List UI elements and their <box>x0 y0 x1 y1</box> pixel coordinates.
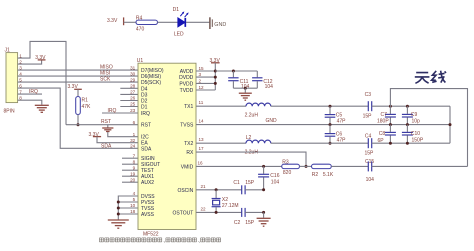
svg-text:17: 17 <box>199 146 205 151</box>
power port 3.3V (J1 pin2) <box>35 55 46 61</box>
capacitor C11 <box>228 71 249 90</box>
svg-text:25: 25 <box>130 102 136 107</box>
LED D1 <box>173 7 189 38</box>
svg-text:15P: 15P <box>363 113 373 119</box>
wire stub D1 <box>120 106 138 108</box>
svg-text:D1: D1 <box>173 7 180 13</box>
ground (below RST line) <box>102 125 113 132</box>
svg-text:SDA: SDA <box>101 143 112 149</box>
svg-text:8PIN: 8PIN <box>4 109 16 115</box>
power port 3.3V (LED row) <box>107 17 124 25</box>
wire VSS bus to ground <box>118 196 138 220</box>
svg-text:27.12M: 27.12M <box>222 203 239 209</box>
svg-text:IRQ: IRQ <box>108 108 117 114</box>
wire C2 to ground rail <box>245 211 264 213</box>
svg-text:2.2uH: 2.2uH <box>245 113 259 119</box>
svg-text:D4: D4 <box>141 86 148 92</box>
svg-text:3: 3 <box>199 72 202 77</box>
wire decoupling bottom rail <box>233 87 257 89</box>
svg-text:47P: 47P <box>337 137 347 143</box>
resistor R4 <box>136 16 158 33</box>
node VMID/C16 <box>262 165 265 168</box>
svg-text:24: 24 <box>130 144 136 149</box>
wire J1 pin8 to ground <box>18 100 42 104</box>
capacitor C7 180P <box>377 105 396 125</box>
wire stub PVSS <box>118 201 138 203</box>
svg-text:15P: 15P <box>245 220 255 226</box>
wire R2 to C15 <box>331 165 368 167</box>
wire R3 to R2 <box>300 165 312 167</box>
capacitor C8 6P <box>378 123 396 145</box>
node antenna center tap <box>449 123 452 126</box>
svg-text:7: 7 <box>133 153 136 158</box>
capacitor C15 104 (series) <box>365 159 374 183</box>
svg-text:R1: R1 <box>82 98 89 104</box>
svg-text:4: 4 <box>133 191 136 196</box>
wire ground rail vertical <box>263 212 265 217</box>
label 天线 (antenna) drawn as strokes <box>415 71 446 84</box>
wire J1 pin6 to SDA line <box>18 88 138 148</box>
svg-text:6: 6 <box>133 120 136 125</box>
svg-text:AVDD: AVDD <box>180 69 194 75</box>
wire antenna outer loop <box>390 89 467 167</box>
svg-text:TVDD: TVDD <box>180 88 194 94</box>
svg-text:23: 23 <box>130 108 136 113</box>
svg-text:32: 32 <box>130 138 136 143</box>
wire stub SIGOUT <box>122 163 138 165</box>
wire stub SIGIN <box>122 157 138 159</box>
svg-text:15P: 15P <box>245 180 255 186</box>
svg-text:5.1K: 5.1K <box>323 172 334 178</box>
svg-text:OSTOUT: OSTOUT <box>173 210 194 216</box>
svg-text:C8: C8 <box>379 131 386 137</box>
wire crystal OSTOUT from U1 <box>196 211 242 213</box>
resistor R3 820 <box>282 160 300 177</box>
svg-text:TX1: TX1 <box>184 104 193 110</box>
svg-text:3.3V: 3.3V <box>107 18 118 24</box>
wire C3 to antenna node A <box>372 105 450 107</box>
wire J1 pin1 loop to RST <box>18 41 66 124</box>
wire stub J1 pin7 IRQ <box>18 93 42 95</box>
svg-text:AVSS: AVSS <box>141 212 155 218</box>
wire stub TEST <box>122 169 138 171</box>
node R1/RST junction <box>77 123 80 126</box>
wire crystal OSCIN from U1 <box>196 189 242 191</box>
svg-text:12: 12 <box>199 85 205 90</box>
wire stub D3 <box>120 93 138 95</box>
svg-text:X2: X2 <box>222 197 228 203</box>
wire SCK J1 pin5 to U1 <box>18 81 138 83</box>
svg-text:1: 1 <box>133 132 136 137</box>
wire VMID from U1 <box>196 165 282 167</box>
wire antenna coil right side <box>449 106 451 143</box>
svg-text:LED: LED <box>174 32 184 38</box>
wire C1 to ground rail <box>245 189 264 191</box>
wire R1 to RST line <box>77 115 79 125</box>
svg-text:104: 104 <box>366 177 375 183</box>
wire stub PVDD <box>196 82 215 84</box>
svg-text:10p: 10p <box>412 118 421 124</box>
svg-text:47P: 47P <box>337 118 347 124</box>
wire GND rail TVSS <box>196 124 450 126</box>
svg-text:14: 14 <box>199 119 205 124</box>
svg-text:26: 26 <box>130 96 136 101</box>
wire stub AUX1 <box>122 175 138 177</box>
ground (U1 VSS) <box>108 220 129 228</box>
svg-text:C9: C9 <box>411 112 418 118</box>
wire MISI J1 pin4 to U1 <box>18 75 138 77</box>
note text (bottom) drawn as glyph marks <box>99 238 220 243</box>
svg-text:470: 470 <box>136 26 145 32</box>
inductor L1 2.2uH <box>245 103 271 119</box>
svg-text:104: 104 <box>265 84 274 90</box>
svg-text:27: 27 <box>130 90 136 95</box>
svg-text:SDA: SDA <box>141 146 152 152</box>
svg-text:2: 2 <box>199 78 202 83</box>
svg-text:C1: C1 <box>233 180 240 186</box>
power port 3.3V (VDD rail) <box>210 58 221 64</box>
svg-text:11: 11 <box>199 100 204 105</box>
svg-text:13: 13 <box>199 137 205 142</box>
capacitor C4 15P (series) <box>365 133 375 156</box>
ground (C11/C12) <box>239 88 252 100</box>
ground (J1 pin8) <box>35 105 49 112</box>
inductor L2 2.2uH <box>245 135 271 155</box>
wire L2 to C4 <box>271 142 369 144</box>
wire VDD rail to decoupling caps <box>215 70 257 72</box>
wire stub D2 <box>120 100 138 102</box>
svg-text:8: 8 <box>133 159 136 164</box>
wire stub AUX2 <box>122 181 138 183</box>
svg-text:R3: R3 <box>282 160 289 166</box>
wire MISO J1 pin3 to U1 <box>18 69 138 71</box>
wire 3.3V to R1 <box>77 89 79 96</box>
svg-text:MF522: MF522 <box>143 232 159 238</box>
svg-text:10: 10 <box>130 203 136 208</box>
wire VDD vertical rail <box>214 63 216 90</box>
wire J1 pin2 to 3.3V <box>18 60 42 64</box>
capacitor C6 47P <box>325 123 346 145</box>
svg-text:GND: GND <box>214 22 226 28</box>
svg-text:RX: RX <box>186 150 194 156</box>
U1 left pin names <box>141 68 164 218</box>
wire stub DVDD <box>196 76 215 78</box>
capacitor C2 15P (series) <box>234 208 255 226</box>
wire C15 to antenna loop <box>372 165 468 167</box>
node TX1/C5 <box>329 105 332 108</box>
svg-text:9: 9 <box>133 165 136 170</box>
connector J1 <box>4 48 23 115</box>
svg-text:R2: R2 <box>312 172 319 178</box>
svg-text:47K: 47K <box>82 104 92 110</box>
power port 3.3V (EA) <box>89 132 102 138</box>
wire D1 to GND port <box>186 21 210 23</box>
svg-text:15P: 15P <box>365 150 375 156</box>
left pin numbers of U1 <box>130 65 136 214</box>
wire stub AVDD <box>196 70 215 72</box>
svg-text:29: 29 <box>130 77 136 82</box>
svg-text:RST: RST <box>101 119 111 125</box>
capacitor C12 <box>252 71 273 90</box>
svg-text:C10: C10 <box>411 131 420 137</box>
svg-text:6P: 6P <box>378 138 385 144</box>
wire stub TVDD <box>196 89 215 91</box>
svg-text:C3: C3 <box>365 92 372 98</box>
svg-text:D1: D1 <box>141 105 148 111</box>
svg-text:C16: C16 <box>270 173 279 179</box>
svg-text:30: 30 <box>130 71 136 76</box>
svg-text:DVDD: DVDD <box>179 75 194 81</box>
wire 3.3V to EA line to U1 <box>97 137 138 143</box>
wire stub AVSS <box>118 213 138 215</box>
svg-text:SCK: SCK <box>100 77 111 83</box>
wire TX1 from U1 <box>196 105 246 107</box>
wire C4 to antenna node B <box>372 142 450 144</box>
crystal X2 27.12M <box>212 188 239 214</box>
svg-text:104: 104 <box>271 180 280 186</box>
op-amp U1 MF522 IC body <box>137 58 196 237</box>
svg-text:C2: C2 <box>234 220 241 226</box>
capacitor C5 47P <box>325 106 346 124</box>
svg-text:TVSS: TVSS <box>180 123 194 129</box>
wire TX2 from U1 <box>196 142 246 144</box>
power port 3.3V (R1 pullup) <box>68 84 82 90</box>
svg-text:RST: RST <box>141 123 151 129</box>
svg-text:C5: C5 <box>336 112 343 118</box>
capacitor C16 104 <box>258 166 280 189</box>
U1 right pin names <box>173 69 194 216</box>
svg-text:18: 18 <box>130 209 136 214</box>
svg-text:C15: C15 <box>365 159 374 165</box>
wire stub TVSS <box>118 207 138 209</box>
capacitor C10 150P <box>402 123 424 145</box>
svg-text:IRQ: IRQ <box>29 89 38 95</box>
svg-text:31: 31 <box>130 65 136 70</box>
node VSS bus junctions <box>117 201 120 204</box>
svg-text:C6: C6 <box>336 131 343 137</box>
svg-text:5: 5 <box>133 197 136 202</box>
wire I2C line to U1 <box>108 132 138 137</box>
wire stub IRQ (U1 side) <box>102 112 138 114</box>
svg-text:15: 15 <box>199 66 205 71</box>
svg-text:22: 22 <box>201 206 207 211</box>
resistor R2 5.1K <box>312 164 334 178</box>
svg-text:20: 20 <box>130 177 136 182</box>
svg-text:AUX2: AUX2 <box>141 180 154 186</box>
svg-text:28: 28 <box>130 84 136 89</box>
node VDD junctions <box>214 70 217 73</box>
svg-text:D3: D3 <box>141 92 148 98</box>
svg-text:19: 19 <box>130 171 136 176</box>
node RX divider <box>305 165 308 168</box>
svg-text:D5(SCK): D5(SCK) <box>141 80 161 86</box>
right pin numbers of U1 <box>198 66 207 211</box>
capacitor C3 15P (series) <box>363 92 373 119</box>
power port GND (LED row) <box>210 17 226 29</box>
ground (crystal/C16) <box>257 218 271 226</box>
capacitor C1 15P (series) <box>233 180 254 194</box>
svg-text:VMID: VMID <box>181 164 194 170</box>
wire stub D4 <box>120 87 138 89</box>
wire RST line to U1 <box>66 124 138 126</box>
wire L1 to C3 <box>271 105 369 107</box>
svg-text:820: 820 <box>283 170 292 176</box>
svg-text:GND: GND <box>266 118 278 124</box>
wire R4 to D1 <box>158 21 178 23</box>
svg-text:150P: 150P <box>412 137 424 143</box>
svg-text:OSCIN: OSCIN <box>177 188 193 194</box>
svg-text:IRQ: IRQ <box>141 111 150 117</box>
resistor R1 <box>76 97 91 115</box>
wire 3.3V to R4 <box>124 21 136 23</box>
svg-text:21: 21 <box>201 184 207 189</box>
svg-text:TX2: TX2 <box>184 141 193 147</box>
svg-text:PVDD: PVDD <box>179 81 193 87</box>
wire RX from U1 <box>196 152 306 166</box>
svg-text:C7: C7 <box>381 112 388 118</box>
svg-text:16: 16 <box>198 160 204 165</box>
svg-text:180P: 180P <box>377 118 389 124</box>
capacitor C9 10p <box>402 105 420 125</box>
